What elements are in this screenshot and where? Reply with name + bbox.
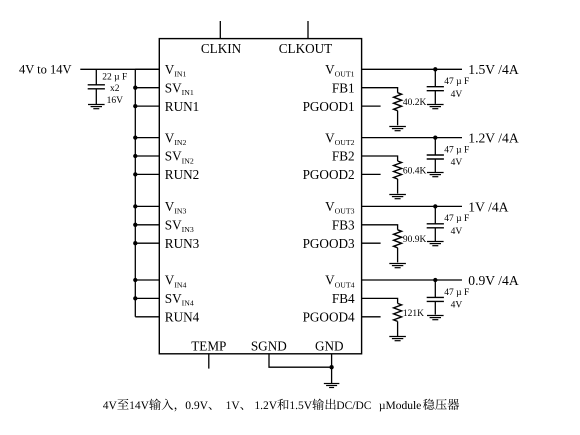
junction dot VOUT4 xyxy=(433,278,437,282)
junction dot VOUT2 xyxy=(433,135,437,139)
ground (output cap 3) xyxy=(427,242,444,246)
wire VOUT2 xyxy=(362,137,462,139)
svg-text:40.2K: 40.2K xyxy=(403,98,427,108)
wire FB1 xyxy=(362,88,398,93)
junction dot VOUT1 xyxy=(433,67,437,71)
svg-text:FB3: FB3 xyxy=(332,218,355,233)
wire C1 to ground xyxy=(95,89,97,104)
pin TEMP stub xyxy=(208,354,210,369)
svg-text:1V /4A: 1V /4A xyxy=(468,199,508,214)
wire VOUT1 xyxy=(362,68,462,70)
wire FB4 xyxy=(362,298,398,303)
ground (GND pin) xyxy=(324,384,340,388)
wire SGND to GND xyxy=(269,354,332,367)
svg-text:PGOOD1: PGOOD1 xyxy=(303,99,355,114)
svg-text:PGOOD3: PGOOD3 xyxy=(303,236,355,251)
wire cap to ground out2 xyxy=(434,159,436,172)
junction dots on input bus xyxy=(133,86,137,301)
ground (output cap 1) xyxy=(427,105,444,109)
pin CLKOUT stub xyxy=(307,21,309,39)
ground (output cap 2) xyxy=(427,173,444,177)
wire R4 to ground xyxy=(397,321,399,336)
svg-text:FB2: FB2 xyxy=(332,149,355,164)
wire bus to RUN3 xyxy=(135,242,159,244)
wire bus to VIN2 xyxy=(135,137,159,139)
wire bus to VIN1 xyxy=(135,68,159,70)
junction dot SGND/GND xyxy=(329,365,333,369)
wire VOUT4 to cap xyxy=(434,280,436,297)
wire PGOOD3 stub xyxy=(362,242,381,244)
capacitor 47uF out3 xyxy=(427,224,444,228)
svg-text:RUN4: RUN4 xyxy=(165,310,200,325)
svg-text:4V: 4V xyxy=(451,90,463,100)
svg-text:0.9V /4A: 0.9V /4A xyxy=(468,273,519,288)
resistor R1 40.2K xyxy=(394,93,402,111)
svg-text:RUN3: RUN3 xyxy=(165,236,200,251)
svg-text:PGOOD4: PGOOD4 xyxy=(303,310,355,325)
wire VOUT2 to cap xyxy=(434,138,436,155)
pin CLKIN stub xyxy=(219,21,221,39)
wire PGOOD2 stub xyxy=(362,173,381,175)
svg-text:60.4K: 60.4K xyxy=(403,166,427,176)
ground (input cap) xyxy=(88,105,105,109)
wire bus to RUN4 xyxy=(135,316,159,318)
resistor R4 121K xyxy=(394,303,402,321)
wire bus to SVIN2 xyxy=(135,155,159,157)
wire VOUT3 to cap xyxy=(434,206,436,223)
junction dot VOUT3 xyxy=(433,204,437,208)
wire R1 to ground xyxy=(397,111,399,126)
svg-text:PGOOD2: PGOOD2 xyxy=(303,167,355,182)
capacitor C1 22uF wire xyxy=(95,69,97,85)
wire VOUT4 xyxy=(362,279,462,281)
wire bus to SVIN3 xyxy=(135,224,159,226)
wire cap to ground out1 xyxy=(434,91,436,104)
svg-text:x2: x2 xyxy=(110,84,120,94)
svg-text:CLKIN: CLKIN xyxy=(201,41,242,56)
capacitor C1 22uF xyxy=(88,85,105,89)
wire VOUT1 to cap xyxy=(434,69,436,86)
svg-text:RUN2: RUN2 xyxy=(165,167,199,182)
ground (R2) xyxy=(389,195,406,199)
svg-text:4V: 4V xyxy=(451,301,463,311)
resistor R2 60.4K xyxy=(394,161,402,179)
wire PGOOD1 stub xyxy=(362,105,381,107)
svg-text:47 µ F: 47 µ F xyxy=(444,145,469,155)
svg-text:TEMP: TEMP xyxy=(191,339,226,354)
svg-text:22 µ F: 22 µ F xyxy=(102,73,127,83)
svg-text:SGND: SGND xyxy=(251,339,287,354)
svg-text:FB1: FB1 xyxy=(332,80,355,95)
svg-text:GND: GND xyxy=(315,339,344,354)
wire bus to VIN3 xyxy=(135,205,159,207)
ground (R4) xyxy=(389,337,406,341)
caption text xyxy=(103,399,459,412)
svg-text:47 µ F: 47 µ F xyxy=(444,288,469,298)
wire VOUT3 xyxy=(362,205,462,207)
wire PGOOD4 stub xyxy=(362,316,381,318)
svg-text:CLKOUT: CLKOUT xyxy=(279,41,332,56)
svg-text:90.9K: 90.9K xyxy=(403,235,427,245)
svg-text:4V to 14V: 4V to 14V xyxy=(19,62,72,76)
svg-text:1.5V /4A: 1.5V /4A xyxy=(468,62,519,77)
wire bus to RUN2 xyxy=(135,173,159,175)
wire GND down xyxy=(331,354,333,384)
wire bus to SVIN4 xyxy=(135,297,159,299)
wire R2 to ground xyxy=(397,179,399,194)
svg-text:RUN1: RUN1 xyxy=(165,99,199,114)
ground (R3) xyxy=(389,264,406,268)
wire FB3 xyxy=(362,225,398,230)
wire cap to ground out3 xyxy=(434,228,436,241)
wire cap to ground out4 xyxy=(434,301,436,314)
capacitor 47uF out4 xyxy=(427,297,444,301)
ground (output cap 4) xyxy=(427,316,444,320)
ground (R1) xyxy=(389,127,406,131)
svg-text:FB4: FB4 xyxy=(332,291,355,306)
wire bus to RUN1 xyxy=(135,105,159,107)
capacitor 47uF out2 xyxy=(427,155,444,159)
wire bus to SVIN1 xyxy=(135,87,159,89)
svg-text:1.2V /4A: 1.2V /4A xyxy=(468,131,519,146)
svg-text:47 µ F: 47 µ F xyxy=(444,77,469,87)
resistor R3 90.9K xyxy=(394,230,402,248)
wire input to VIN1 xyxy=(80,68,159,70)
wire R3 to ground xyxy=(397,248,399,263)
wire bus to VIN4 xyxy=(135,279,159,281)
svg-text:47 µ F: 47 µ F xyxy=(444,214,469,224)
wire FB2 xyxy=(362,156,398,161)
svg-text:121K: 121K xyxy=(403,309,424,319)
input bus vertical wire xyxy=(134,69,136,316)
svg-text:16V: 16V xyxy=(107,96,124,106)
capacitor 47uF out1 xyxy=(427,87,444,91)
IC U1 (quad uModule regulator) body xyxy=(159,39,361,354)
svg-text:4V: 4V xyxy=(451,227,463,237)
svg-text:4V: 4V xyxy=(451,158,463,168)
